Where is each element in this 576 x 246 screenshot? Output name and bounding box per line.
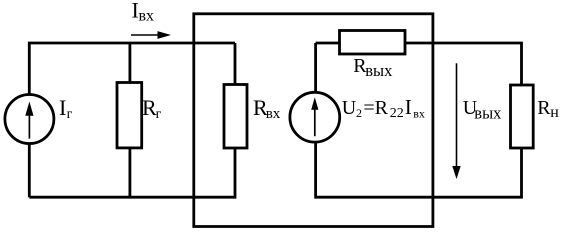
svg-text:2: 2 xyxy=(356,106,362,120)
svg-text:I: I xyxy=(405,95,412,119)
svg-text:=: = xyxy=(363,97,374,119)
svg-text:U: U xyxy=(342,97,357,119)
svg-text:вых: вых xyxy=(365,61,393,80)
svg-text:I: I xyxy=(59,95,66,120)
svg-text:R: R xyxy=(375,97,389,119)
svg-text:г: г xyxy=(67,107,73,122)
svg-text:22: 22 xyxy=(390,106,404,121)
svg-text:вх: вх xyxy=(139,8,155,25)
svg-text:вх: вх xyxy=(413,107,425,121)
svg-text:вх: вх xyxy=(266,106,281,122)
svg-text:R: R xyxy=(537,97,551,119)
svg-text:г: г xyxy=(156,107,162,122)
svg-text:вых: вых xyxy=(474,103,502,122)
svg-text:н: н xyxy=(550,104,559,121)
